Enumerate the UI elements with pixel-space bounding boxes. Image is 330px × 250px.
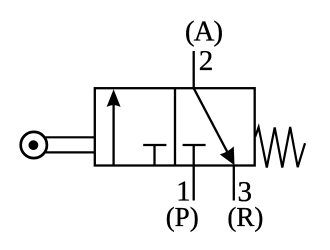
svg-text:(P): (P) [166,202,199,232]
svg-text:(R): (R) [227,202,263,232]
svg-text:2: 2 [199,45,214,77]
svg-text:(A): (A) [185,16,222,47]
